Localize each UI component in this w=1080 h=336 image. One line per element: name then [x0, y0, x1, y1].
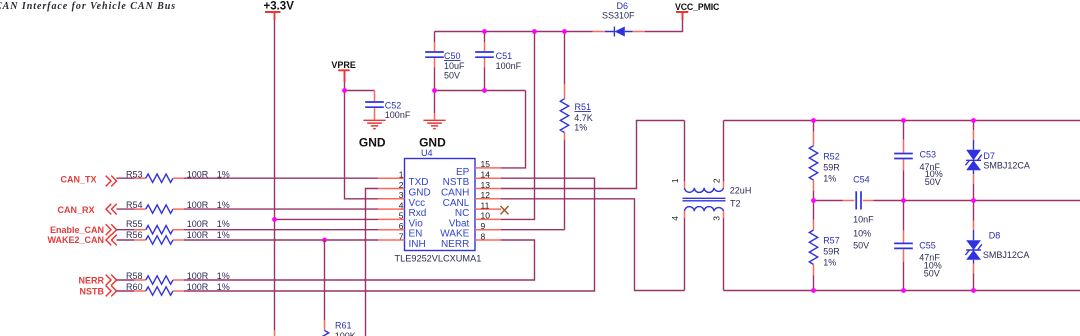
svg-text:100R: 100R — [187, 219, 209, 229]
svg-text:R56: R56 — [126, 230, 143, 240]
svg-text:R54: R54 — [126, 200, 143, 210]
svg-text:2: 2 — [711, 178, 721, 183]
svg-text:22uH: 22uH — [730, 185, 752, 195]
port Enable_CAN — [50, 224, 117, 235]
svg-text:R52: R52 — [823, 152, 840, 162]
svg-text:R55: R55 — [126, 219, 143, 229]
svg-text:50V: 50V — [444, 71, 460, 81]
resistor R56 — [126, 230, 230, 244]
svg-text:+3.3V: +3.3V — [264, 1, 295, 13]
power +3.3V — [264, 1, 295, 21]
junction Vio +3.3V — [275, 218, 379, 220]
wire Enable_CAN to pin6 — [184, 229, 378, 231]
junction C55 bottom rail — [901, 288, 906, 293]
svg-text:15: 15 — [481, 159, 491, 169]
wire VCC_PMIC drop — [645, 20, 683, 32]
wire CAN_RX to pin4 — [184, 208, 378, 210]
resistor R61 — [320, 240, 355, 336]
capacitor C54 — [843, 175, 875, 251]
capacitor C51 — [475, 32, 521, 91]
U4 pin names left — [409, 177, 431, 250]
wire NERR row to pin8 — [184, 240, 535, 280]
svg-text:C50: C50 — [444, 51, 461, 61]
svg-text:10nF: 10nF — [853, 215, 874, 225]
svg-text:R51: R51 — [575, 102, 592, 112]
svg-text:4: 4 — [670, 216, 680, 221]
svg-text:C51: C51 — [496, 51, 513, 61]
svg-text:CAN Interface for Vehicle CAN: CAN Interface for Vehicle CAN Bus — [0, 1, 176, 12]
svg-text:2: 2 — [399, 180, 404, 190]
resistor R51 — [560, 32, 593, 230]
TVS diode D8 — [965, 201, 1029, 291]
svg-text:R61: R61 — [335, 321, 352, 331]
junction C50 gnd rail — [432, 88, 437, 93]
capacitor C50 — [425, 32, 465, 114]
junction C51 gnd rail — [482, 88, 487, 93]
junction INH R61 — [322, 238, 327, 243]
wire WAKE2_CAN to pin7 — [184, 239, 378, 241]
wire CAN_RX row — [117, 208, 135, 210]
resistor R55 — [126, 219, 230, 234]
svg-text:5: 5 — [399, 211, 404, 221]
svg-text:C54: C54 — [853, 175, 870, 185]
svg-text:50V: 50V — [925, 177, 941, 187]
wire bottom rail right — [724, 290, 1080, 292]
wire top rail y31 left — [435, 31, 593, 33]
svg-text:4: 4 — [399, 200, 404, 210]
svg-text:1%: 1% — [217, 230, 230, 240]
svg-text:1%: 1% — [574, 123, 587, 133]
svg-text:3: 3 — [399, 190, 404, 200]
svg-text:SS310F: SS310F — [602, 11, 635, 21]
junction R51 top wire — [562, 29, 567, 34]
svg-text:6: 6 — [399, 221, 404, 231]
svg-text:10uF: 10uF — [444, 61, 465, 71]
capacitor C55 — [894, 201, 942, 291]
wire CAN_TX row — [117, 177, 135, 179]
port NSTB — [80, 286, 117, 297]
wire +3.3V rail vertical — [274, 20, 276, 330]
wire CAN_TX to pin1 — [184, 177, 378, 179]
svg-text:100K: 100K — [335, 331, 356, 336]
transformer T2 — [670, 121, 751, 291]
svg-text:10%: 10% — [853, 229, 871, 239]
wire Vbat leg — [501, 32, 535, 220]
svg-text:50V: 50V — [924, 269, 940, 279]
IC U4 TLE9252VLCXUMA1 — [395, 148, 482, 264]
svg-text:100nF: 100nF — [496, 61, 522, 71]
wire top rail right — [724, 120, 1080, 122]
svg-text:CAN_TX: CAN_TX — [60, 175, 96, 185]
junction R52 top rail — [811, 118, 816, 123]
svg-text:13: 13 — [481, 180, 491, 190]
svg-text:1: 1 — [399, 170, 404, 180]
wire WAKE2_CAN row — [117, 239, 135, 241]
junction VPRE node — [342, 88, 347, 93]
wire NERR row — [117, 279, 135, 281]
svg-text:59R: 59R — [823, 163, 840, 173]
svg-text:T2: T2 — [730, 198, 741, 208]
resistor R60 — [126, 282, 230, 295]
svg-text:1%: 1% — [217, 219, 230, 229]
svg-text:CAN_RX: CAN_RX — [57, 205, 94, 215]
wire GND pin2 leg — [366, 189, 379, 336]
wire VPRE vertical to pin3 — [345, 82, 379, 199]
svg-text:C55: C55 — [919, 241, 936, 251]
svg-text:1: 1 — [670, 178, 680, 183]
svg-text:100nF: 100nF — [385, 110, 411, 120]
svg-text:NERR: NERR — [78, 275, 104, 285]
resistor R58 — [126, 271, 230, 284]
no-connect X on pin 11 — [501, 206, 509, 214]
capacitor C52 — [365, 91, 411, 121]
svg-text:1%: 1% — [823, 258, 836, 268]
junction R57 bottom rail — [811, 288, 816, 293]
svg-text:100R: 100R — [187, 230, 209, 240]
wire GND rail y90 — [435, 90, 526, 92]
wire +3.3V rail bottom red tip — [274, 330, 276, 336]
port WAKE2_CAN — [47, 235, 116, 246]
wire NSTB row — [117, 290, 135, 292]
wire Enable_CAN row — [117, 229, 135, 231]
U4 left pin stubs — [378, 178, 405, 240]
power VPRE — [331, 60, 356, 82]
junction R52 R57 middle rail — [811, 198, 816, 203]
svg-text:7: 7 — [399, 231, 404, 241]
wire middle rail — [814, 200, 843, 202]
svg-text:SMBJ12CA: SMBJ12CA — [983, 160, 1030, 170]
junction D8 bottom rail — [971, 288, 976, 293]
TVS diode D7 — [965, 121, 1030, 201]
resistor R54 — [126, 200, 230, 213]
svg-text:NERR: NERR — [441, 239, 469, 250]
svg-text:WAKE2_CAN: WAKE2_CAN — [47, 235, 104, 245]
svg-text:R58: R58 — [126, 271, 143, 281]
U4 pin names right — [440, 167, 470, 250]
ground GND under C52 — [359, 120, 386, 149]
port CAN_TX — [60, 175, 116, 187]
resistor R52 — [809, 121, 840, 201]
junction Vbat leg top wire — [532, 29, 537, 34]
svg-text:4.7K: 4.7K — [574, 113, 593, 123]
svg-text:SMBJ12CA: SMBJ12CA — [983, 250, 1030, 260]
diode D6 — [593, 1, 646, 36]
svg-text:VPRE: VPRE — [331, 60, 356, 70]
svg-text:10: 10 — [481, 211, 491, 221]
ground GND under C50 — [419, 113, 446, 150]
svg-text:50V: 50V — [853, 241, 869, 251]
svg-text:GND: GND — [359, 136, 386, 150]
svg-text:R57: R57 — [823, 236, 840, 246]
svg-text:Enable_CAN: Enable_CAN — [50, 225, 104, 235]
wire CANH path — [501, 121, 685, 189]
resistor R57 — [809, 201, 840, 291]
port CAN_RX — [57, 204, 116, 215]
junction C51 top wire — [482, 29, 487, 34]
wire EP leg — [501, 91, 526, 168]
svg-text:R60: R60 — [126, 282, 143, 292]
junction C53 C55 middle rail — [901, 198, 906, 203]
svg-text:INH: INH — [409, 239, 426, 250]
resistor R53 — [126, 169, 230, 182]
power VCC_PMIC — [675, 2, 720, 20]
svg-text:VCC_PMIC: VCC_PMIC — [675, 2, 720, 12]
svg-text:12: 12 — [481, 190, 491, 200]
U4 pin numbers left — [399, 170, 404, 242]
wire NSTB row to pin14 — [184, 178, 595, 291]
svg-text:1%: 1% — [823, 174, 836, 184]
svg-text:3: 3 — [711, 216, 721, 221]
svg-text:TLE9252VLCXUMA1: TLE9252VLCXUMA1 — [395, 254, 482, 264]
U4 pin numbers right — [481, 159, 491, 241]
junction C53 top rail — [901, 118, 906, 123]
wire VPRE to C52 — [345, 90, 375, 92]
svg-text:NSTB: NSTB — [80, 286, 105, 296]
svg-text:D8: D8 — [989, 231, 1001, 241]
svg-text:14: 14 — [481, 170, 491, 180]
svg-text:11: 11 — [481, 200, 490, 210]
svg-text:R53: R53 — [126, 169, 143, 179]
svg-text:C53: C53 — [920, 150, 937, 160]
capacitor C53 — [894, 121, 943, 201]
svg-text:U4: U4 — [421, 148, 433, 158]
svg-text:C52: C52 — [385, 100, 402, 110]
svg-text:59R: 59R — [823, 247, 840, 257]
wire CANL path — [501, 199, 685, 291]
port NERR — [78, 275, 116, 286]
svg-text:9: 9 — [481, 221, 486, 231]
U4 right pin stubs — [475, 168, 501, 240]
wire WAKE row from R51 — [501, 229, 565, 231]
svg-text:8: 8 — [481, 231, 486, 241]
junction D7 D8 middle rail — [971, 198, 976, 203]
junction D7 top rail — [971, 118, 976, 123]
